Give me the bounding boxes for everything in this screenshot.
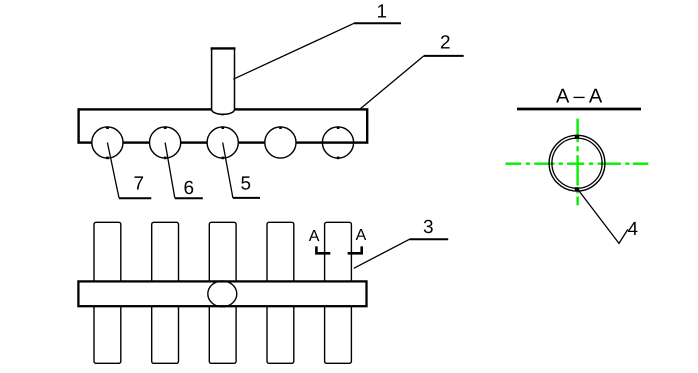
- svg-text:1: 1: [377, 2, 388, 23]
- svg-text:4: 4: [628, 219, 639, 240]
- svg-text:6: 6: [184, 178, 195, 199]
- svg-text:3: 3: [423, 217, 434, 238]
- svg-text:A: A: [356, 227, 367, 244]
- svg-text:5: 5: [241, 174, 252, 195]
- svg-text:7: 7: [134, 174, 145, 195]
- svg-text:A: A: [309, 228, 320, 245]
- svg-text:A–A: A–A: [556, 86, 606, 108]
- svg-text:2: 2: [440, 33, 451, 54]
